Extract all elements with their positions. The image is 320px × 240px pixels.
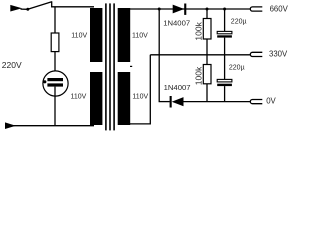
bottom rail left xyxy=(6,125,94,127)
mains input bottom arrow xyxy=(5,122,16,129)
svg-text:1N4007: 1N4007 xyxy=(164,83,191,92)
svg-text:1N4007: 1N4007 xyxy=(163,19,190,28)
secondary center tap stub xyxy=(130,65,132,67)
svg-text:220µ: 220µ xyxy=(231,19,247,26)
junction dot R1 top xyxy=(206,8,209,11)
330V rail xyxy=(150,54,250,56)
svg-text:110V: 110V xyxy=(71,33,87,40)
mains input top arrow xyxy=(10,5,22,12)
capacitor C1 220u xyxy=(224,9,226,31)
wire to D2 cathode xyxy=(159,101,170,103)
svg-text:220µ: 220µ xyxy=(229,65,245,72)
diode D1 1N4007 xyxy=(173,5,185,14)
transformer T1 primary winding bottom xyxy=(90,72,102,125)
svg-text:110V: 110V xyxy=(132,94,148,101)
capacitor C2 220u xyxy=(224,55,226,80)
wire branch to resistor xyxy=(54,7,56,34)
wire lamp to bottom rail xyxy=(54,87,56,126)
neon lamp lower electrode xyxy=(47,83,63,86)
svg-text:100k: 100k xyxy=(194,21,204,40)
switch contact dot xyxy=(26,8,29,11)
neon lamp envelope xyxy=(43,71,68,96)
transformer T1 secondary winding top xyxy=(118,8,131,62)
transformer T1 secondary winding bottom xyxy=(118,72,131,125)
wire top rail left xyxy=(51,6,94,8)
wire arrow to switch dot xyxy=(21,8,29,10)
switch post xyxy=(51,1,53,7)
resistor R2 100k xyxy=(206,55,208,65)
top rail right xyxy=(123,8,251,10)
svg-text:660V: 660V xyxy=(270,5,289,14)
svg-text:220V: 220V xyxy=(2,60,22,70)
wire resistor to lamp xyxy=(54,52,56,79)
wire secondary bottom to 330V rail xyxy=(124,55,150,124)
wire AC node down xyxy=(158,9,160,102)
junction dot C1 top xyxy=(223,8,226,11)
neon lamp gas dot xyxy=(43,80,46,83)
terminal 660V xyxy=(250,7,262,11)
terminal 330V xyxy=(250,52,262,56)
diode D2 1N4007 xyxy=(170,96,172,108)
node AC junction dot xyxy=(158,8,161,11)
0V rail xyxy=(184,101,251,103)
svg-text:0V: 0V xyxy=(266,96,276,105)
svg-text:110V: 110V xyxy=(71,94,87,101)
neon lamp upper electrode xyxy=(47,78,63,81)
resistor (lamp series) xyxy=(51,33,59,52)
transformer core xyxy=(106,3,114,130)
svg-text:100k: 100k xyxy=(194,66,204,85)
transformer T1 primary winding top xyxy=(90,8,102,62)
terminal 0V xyxy=(250,100,262,104)
resistor R1 100k xyxy=(206,9,208,19)
svg-text:110V: 110V xyxy=(132,33,148,40)
switch blade S1 xyxy=(28,2,52,9)
svg-text:330V: 330V xyxy=(269,49,288,58)
